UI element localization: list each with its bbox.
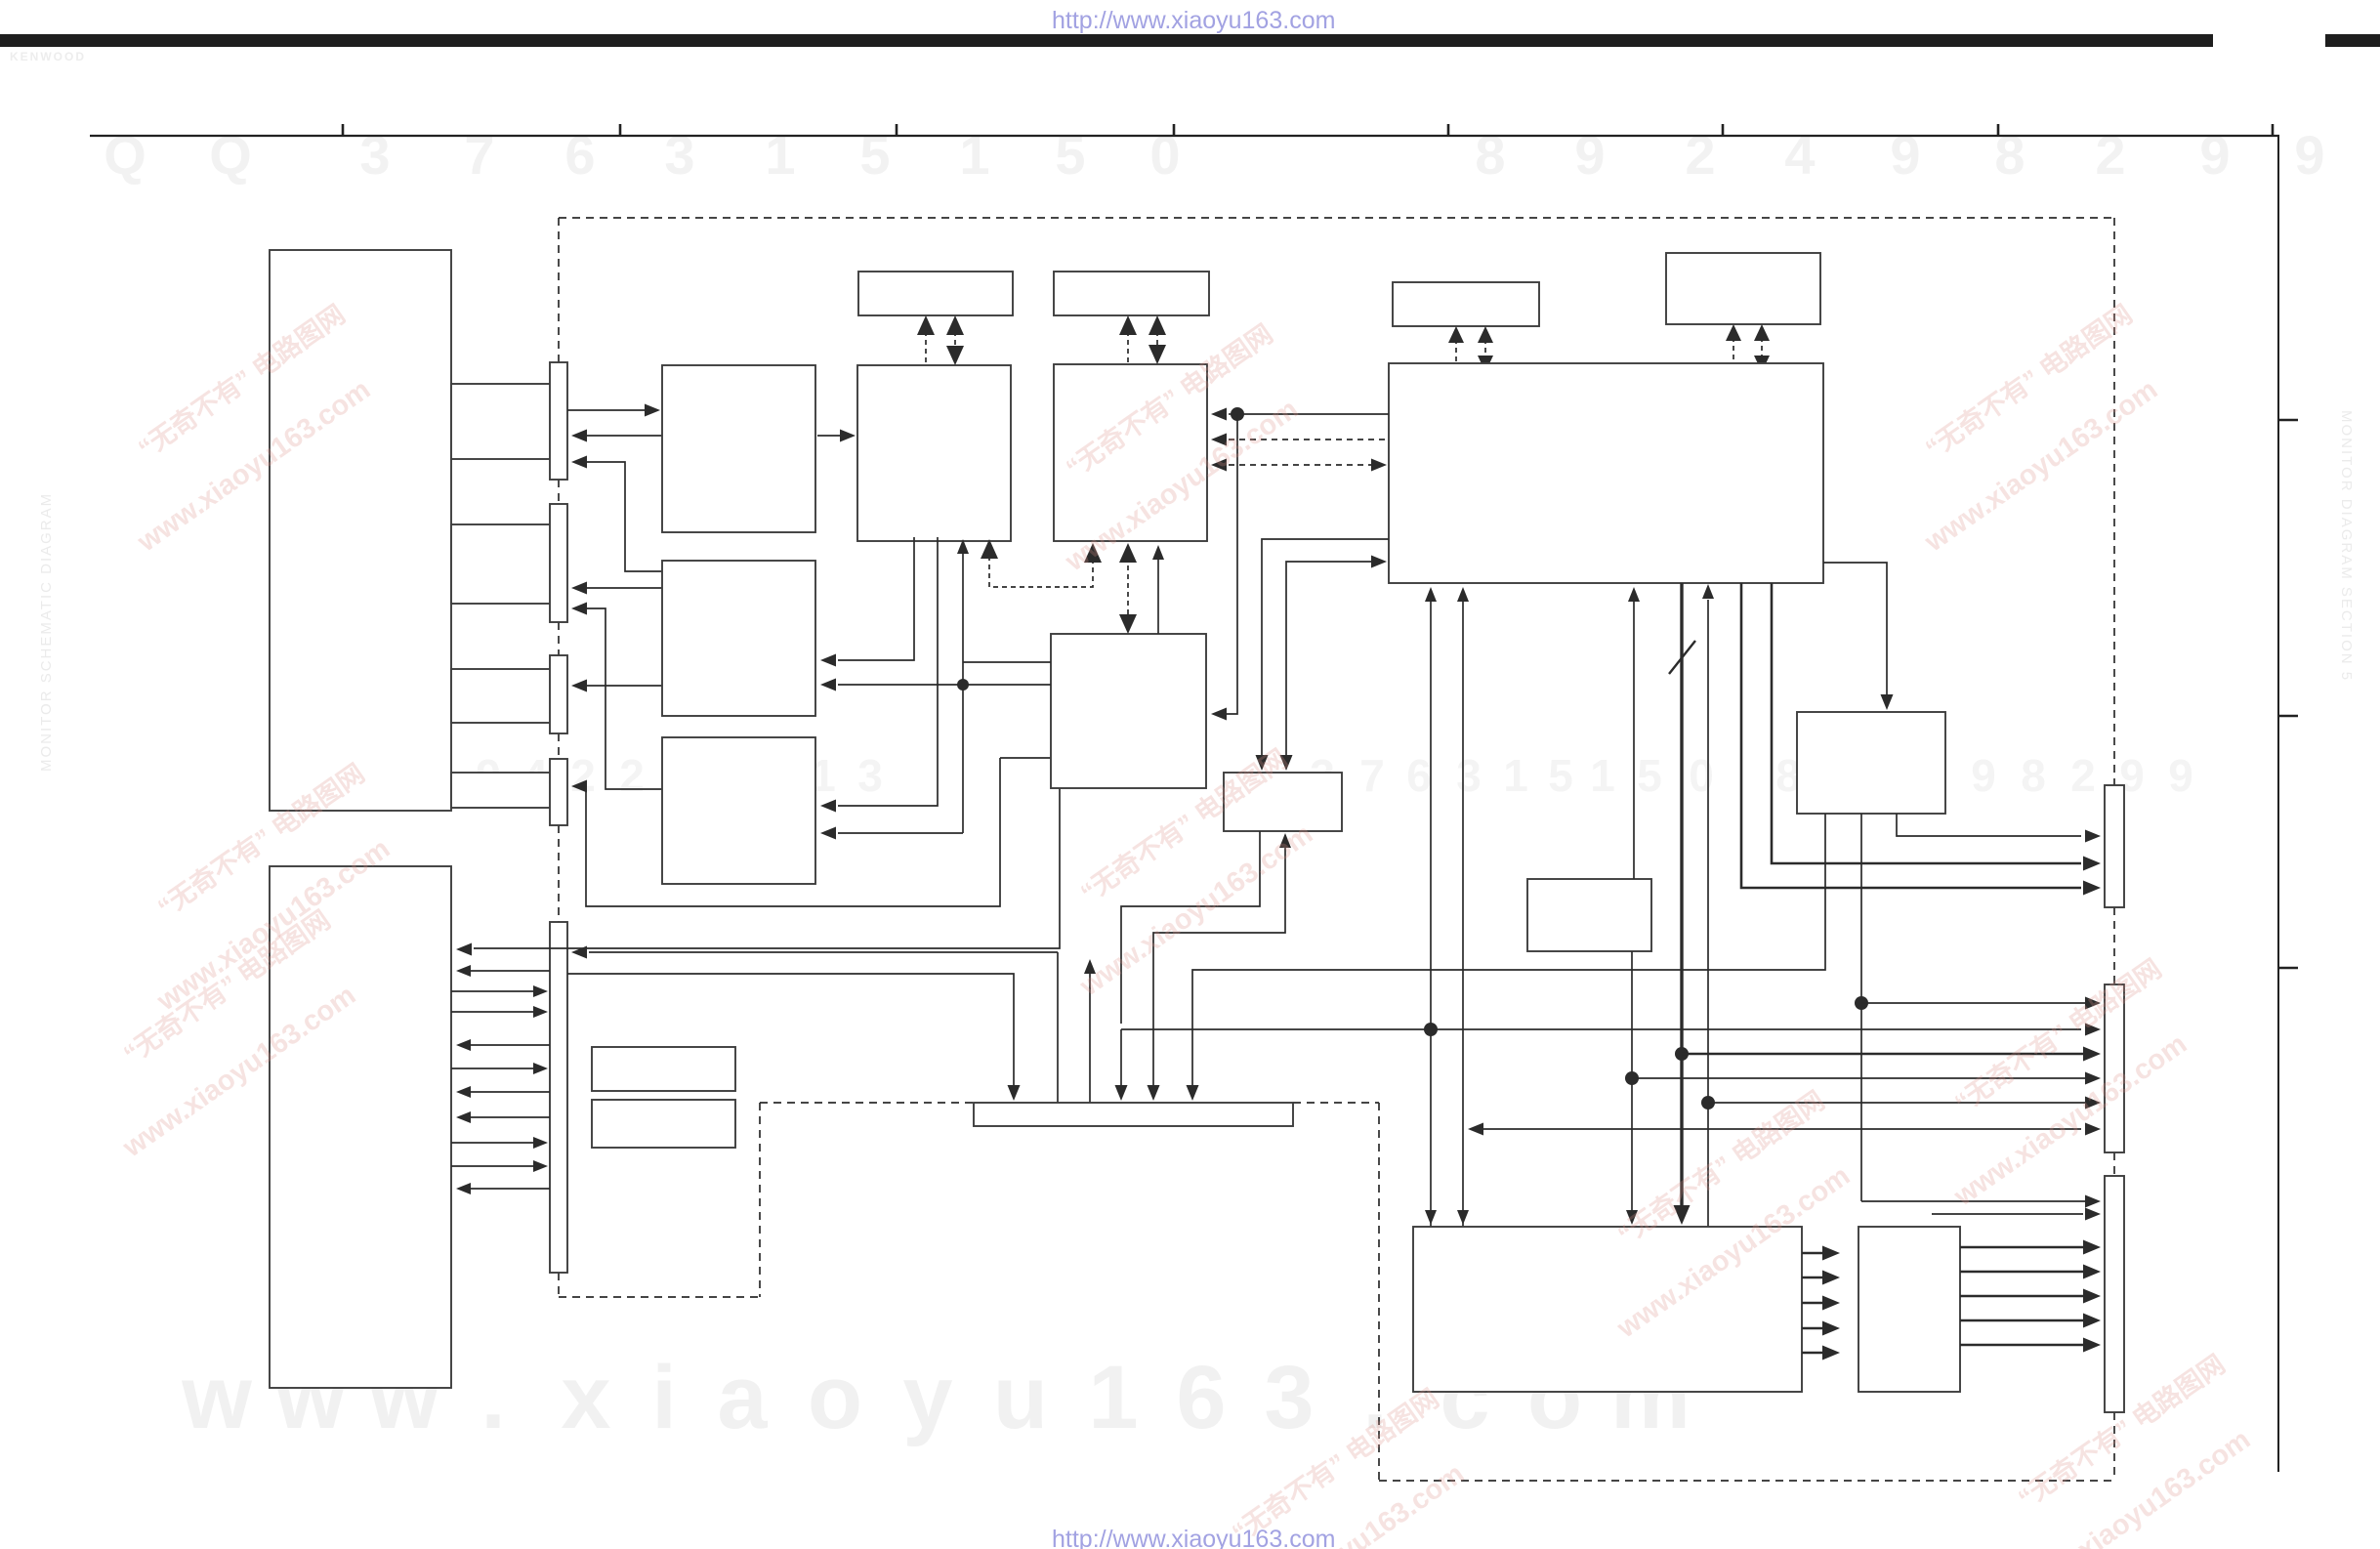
- arrowhead into B4 lower: [820, 679, 836, 691]
- ruler tick 5: [1447, 124, 1450, 136]
- wire CN-E to B2 c: [469, 1091, 550, 1093]
- bus RAM3-B7 dashed bidir line: [1484, 339, 1486, 359]
- pink watermark stamp 1: [88, 299, 395, 559]
- svg-text:7: 7: [1359, 750, 1385, 801]
- wire CN-E to B2 e: [469, 1188, 550, 1190]
- svg-text:1: 1: [1088, 1348, 1138, 1447]
- junction dot B8 line: [1231, 407, 1244, 421]
- svg-text:2: 2: [1685, 124, 1715, 186]
- dashed bottom left horiz: [559, 1296, 760, 1298]
- stub S2: [451, 524, 551, 604]
- svg-text:2: 2: [619, 750, 645, 801]
- wire B15 to CNF3 line1: [1960, 1246, 2085, 1249]
- wire B7-B8 dashed b: [1229, 464, 1371, 466]
- wire B7 to B8 solid left part: [1229, 413, 1237, 415]
- bus B8-B6 arrowhead into B8: [1084, 543, 1102, 563]
- arrowhead into bar from B11: [1187, 1085, 1199, 1101]
- ruler tick 8: [2272, 124, 2275, 136]
- wire B2 to CN-E c: [451, 1068, 535, 1069]
- right ruler tick 1: [2278, 419, 2298, 421]
- dashed right vertical b: [2113, 907, 2115, 984]
- arrowhead into B10 from bar net: [1279, 833, 1291, 848]
- wire B14 to B15 line2: [1802, 1277, 1824, 1279]
- dashed seg connD-connE: [558, 825, 560, 922]
- svg-text:y: y: [902, 1348, 952, 1447]
- svg-text:a: a: [717, 1348, 768, 1447]
- arrowhead into B4 upper: [820, 654, 836, 667]
- svg-text:1: 1: [1503, 750, 1528, 801]
- block B8 chroma proc: [1054, 364, 1207, 541]
- connector CN-D: [550, 759, 567, 825]
- wire B3 to B6: [817, 435, 842, 437]
- connector CN-C: [550, 655, 567, 733]
- svg-text:www.xiaoyu163.com: www.xiaoyu163.com: [1948, 1028, 2193, 1213]
- junction dot 1104: [1625, 1071, 1639, 1085]
- wire B14 to B15 line1: [1802, 1252, 1824, 1255]
- dashed seg connB-connC: [558, 622, 560, 655]
- pink watermark stamp 2: [1016, 318, 1322, 578]
- svg-text:.: .: [480, 1348, 506, 1447]
- arrowhead CNF2 f: [2085, 1123, 2101, 1136]
- wire bar riser 1149: [1120, 1029, 1122, 1086]
- bus B7-B14 line2 up: [1462, 600, 1464, 1227]
- arrowhead CNF1 c: [2085, 830, 2101, 843]
- bus EEPROM-B7 dashed bidir line: [1761, 337, 1763, 359]
- arrowhead left into riser: [1468, 1123, 1483, 1136]
- svg-text:MONITOR SCHEMATIC DIAGRAM: MONITOR SCHEMATIC DIAGRAM: [38, 492, 55, 772]
- bus B12-B14: [1631, 951, 1633, 1211]
- wire B15 to CNF3 line5: [1960, 1344, 2085, 1347]
- svg-text:2: 2: [570, 750, 596, 801]
- wire CN-D horiz: [584, 785, 586, 787]
- dashed seg connA-connB: [558, 480, 560, 504]
- bus RAM2-B8 dashed up line: [1127, 331, 1129, 364]
- arrowhead into B8 solid: [1211, 408, 1227, 421]
- stub S3: [451, 669, 551, 723]
- arrowhead into B14 thick: [1674, 1205, 1691, 1225]
- wire B7 to B10 route: [1262, 539, 1389, 757]
- block B6 video sw: [857, 365, 1011, 541]
- svg-text:KENWOOD: KENWOOD: [10, 50, 86, 63]
- arrowhead into B11: [1881, 694, 1894, 710]
- arrowhead CNF1 b: [2083, 857, 2101, 871]
- wire B4 to CN-A route: [586, 462, 662, 571]
- svg-text:u: u: [993, 1348, 1048, 1447]
- bus B8-B9 bidir up arrowhead: [1119, 543, 1137, 563]
- arrowhead into B6 net: [957, 539, 969, 554]
- dashed left riser: [759, 1103, 761, 1297]
- svg-text:9: 9: [1971, 750, 1996, 801]
- short stub CNF3: [1932, 1213, 2083, 1215]
- junction dot 1129: [1701, 1096, 1715, 1109]
- wire net to B5 y853: [838, 832, 963, 834]
- bus RAM3-B7 bidir up arrowhead: [1478, 326, 1493, 343]
- connector CN-F3: [2105, 1176, 2124, 1412]
- horizontal ruler line: [90, 135, 2279, 137]
- bus RAM1-B6 dashed bidir line: [954, 331, 956, 350]
- connector CN-F2: [2105, 984, 2124, 1152]
- block B7 main microcomputer: [1389, 363, 1823, 583]
- svg-text:2: 2: [2070, 750, 2096, 801]
- arrowhead into B8 dashed b: [1211, 459, 1227, 472]
- wire B10 to B7 route: [1286, 562, 1371, 757]
- arrowhead into bar: [1008, 1085, 1021, 1101]
- wire B11 to CNF1: [1897, 814, 2081, 836]
- bus B8-B6 arrowhead into B6: [981, 539, 998, 559]
- bus line y1027: [1861, 1002, 2087, 1004]
- pink watermark stamp 9: [1567, 1085, 1874, 1345]
- connector CN-E: [550, 922, 567, 1273]
- svg-text:http://www.xiaoyu163.com: http://www.xiaoyu163.com: [1052, 7, 1335, 34]
- wire B11 to CNF3: [1861, 1200, 2087, 1202]
- bus B7-B14 line5: [1707, 600, 1709, 1227]
- svg-text:3: 3: [1264, 1348, 1314, 1447]
- svg-text:i: i: [651, 1348, 677, 1447]
- dashed inner bottom: [1379, 1480, 2114, 1482]
- arrowhead into CN-A: [571, 456, 587, 469]
- wire B15 to CNF3 line4: [1960, 1319, 2085, 1322]
- bus B8-B9 bidir line: [1127, 557, 1129, 618]
- bus B7-B12 up: [1633, 600, 1635, 879]
- block EEPROM top: [1666, 253, 1820, 324]
- dashed inner left vertical: [1378, 1103, 1380, 1481]
- arrowhead into B5 upper: [820, 800, 836, 813]
- arrowhead into bar mid: [1148, 1085, 1160, 1101]
- block B10 buffer: [1224, 773, 1342, 831]
- wire CN-E to B2 d: [469, 1116, 550, 1118]
- bus RAM1-B6 bidir down arrowhead: [946, 346, 964, 365]
- svg-text:9: 9: [2294, 124, 2324, 186]
- bus B7 to CNF1 b: [1772, 583, 2081, 863]
- arrowhead into B10 a: [1256, 755, 1269, 771]
- wire B14 to B15 line3: [1802, 1302, 1824, 1305]
- svg-text:6: 6: [1176, 1348, 1226, 1447]
- top black bar left: [0, 34, 2213, 47]
- bus RAM1-B6 up arrowhead: [917, 315, 935, 335]
- arrowhead into B2: [456, 943, 472, 956]
- arrowhead into B14 line3: [1626, 1210, 1638, 1225]
- bus RAM1-B6 dashed up line: [925, 331, 927, 365]
- bus B8-B6 dashed route: [989, 553, 1093, 587]
- svg-text:5: 5: [1637, 750, 1662, 801]
- svg-text:2: 2: [2095, 124, 2125, 186]
- block B3 IF amp: [662, 365, 815, 532]
- block B4 decoder: [662, 561, 815, 716]
- wire B7 to B11 route: [1823, 563, 1887, 695]
- bus RAM2-B8 dashed bidir line: [1156, 331, 1158, 349]
- dashed outline top: [559, 217, 2114, 219]
- arrowhead into bar from B10 wire: [1115, 1085, 1128, 1101]
- ruler tick 2: [619, 124, 622, 136]
- svg-text:www.xiaoyu163.com: www.xiaoyu163.com: [1919, 374, 2164, 559]
- wire B4 to CN-C: [585, 685, 662, 687]
- pink watermark stamp 4a: [107, 758, 414, 1018]
- pink watermark stamp 5: [1030, 743, 1337, 1003]
- svg-text:o: o: [808, 1348, 862, 1447]
- bus line y1157: [1481, 1128, 2081, 1130]
- svg-text:4: 4: [1784, 124, 1815, 186]
- wire B14 to B15 line4: [1802, 1327, 1824, 1330]
- svg-text:0: 0: [1689, 750, 1714, 801]
- wire CN-D route: [586, 758, 1000, 906]
- bus B7-B14 thick: [1680, 583, 1683, 1209]
- svg-text:9: 9: [1574, 124, 1605, 186]
- dashed right vertical d: [2113, 1412, 2115, 1481]
- pink watermark stamp 8: [1182, 1383, 1488, 1549]
- bus line y1079 thick: [1682, 1053, 2085, 1056]
- junction dot 1079: [1675, 1047, 1689, 1061]
- wire B9 to B8: [1157, 558, 1159, 634]
- svg-text:1: 1: [959, 124, 989, 186]
- dashed outline left upper: [558, 218, 560, 362]
- arrowhead into B7 left: [1371, 556, 1387, 568]
- bus width slash: [1669, 641, 1695, 674]
- wire CN-E to B2 b: [469, 1044, 550, 1046]
- bus EEPROM-B7 up arrowhead: [1726, 324, 1741, 341]
- stub S4: [451, 773, 551, 808]
- dashed seg below connE: [558, 1273, 560, 1297]
- wire B9 to net y678: [963, 661, 1051, 663]
- dashed right vertical c: [2113, 1152, 2115, 1176]
- wire B7-B8 dashed a: [1229, 439, 1389, 440]
- wire B2 to CN-E b: [451, 1011, 535, 1013]
- bus B8-B9 bidir down arrowhead: [1119, 614, 1137, 634]
- wire B6 to B5 route: [838, 537, 938, 806]
- svg-text:8: 8: [2021, 750, 2046, 801]
- svg-text:9: 9: [1890, 124, 1920, 186]
- top black bar right: [2325, 34, 2380, 47]
- wire B11 to CNF3 vertical: [1860, 814, 1862, 1201]
- bus RAM1-B6 bidir up arrowhead: [946, 315, 964, 335]
- bus RAM3-B7 up arrowhead: [1448, 326, 1464, 343]
- wire CN-E to B2 a: [469, 970, 550, 972]
- block B2 key/display unit: [270, 866, 451, 1388]
- wire B2 to CN-E e: [451, 1165, 535, 1167]
- svg-text:5: 5: [1548, 750, 1573, 801]
- wire B11 to bar route: [1192, 814, 1825, 1086]
- dashed right vertical a: [2113, 218, 2115, 785]
- pink watermark stamp 6: [1904, 953, 2211, 1213]
- ruler tick 1: [342, 124, 345, 136]
- arrowhead CNF2 bus1054: [2085, 1024, 2101, 1036]
- bus RAM2-B8 bidir up arrowhead: [1148, 315, 1166, 335]
- svg-text:6: 6: [564, 124, 595, 186]
- svg-text:9: 9: [2168, 750, 2193, 801]
- arrow up from bar: [1089, 972, 1091, 1103]
- arrowhead CNF1 a: [2083, 881, 2101, 896]
- block RAM2 top: [1054, 272, 1209, 315]
- bus B7-B14 line1 up: [1430, 600, 1432, 1227]
- pink watermark stamp 3: [1875, 299, 2182, 559]
- wire B2 to CN-E a: [451, 990, 535, 992]
- wire B10 down to bus: [1121, 831, 1260, 1024]
- connector CN-A: [550, 362, 567, 480]
- wire net to B4 y701: [838, 684, 1051, 686]
- wire B7 to B8 solid: [1237, 413, 1389, 415]
- bus B7 to CNF1 a: [1741, 583, 2081, 888]
- arrowhead into CN-D: [571, 780, 587, 793]
- svg-text:3: 3: [857, 750, 883, 801]
- svg-text:Q: Q: [209, 124, 252, 186]
- wire riser to CN-E line: [1057, 952, 1059, 1103]
- svg-text:5: 5: [1055, 124, 1085, 186]
- svg-text:3: 3: [359, 124, 390, 186]
- bus line y1129: [1708, 1102, 2087, 1104]
- block B14 audio power amp: [1413, 1227, 1802, 1392]
- bus line y1054: [1121, 1028, 2081, 1030]
- bus RAM3-B7 bidir down arrowhead: [1478, 356, 1493, 372]
- wire B4 to CN-B: [585, 587, 662, 589]
- junction dot 1027: [1855, 996, 1868, 1010]
- wire B9 to bend: [1000, 757, 1051, 759]
- svg-text:Q: Q: [104, 124, 146, 186]
- wire B14 to B15 line5: [1802, 1352, 1824, 1355]
- ruler tick 7: [1997, 124, 2000, 136]
- wire B15 to CNF3 line2: [1960, 1271, 2085, 1274]
- bus RAM2-B8 bidir down arrowhead: [1148, 345, 1166, 364]
- svg-text:3: 3: [1456, 750, 1482, 801]
- wire CN-A to B3: [567, 409, 647, 411]
- bus RAM2-B8 up arrowhead: [1119, 315, 1137, 335]
- block SB2 regulator2: [592, 1100, 735, 1148]
- connector CN-F1: [2105, 785, 2124, 907]
- svg-text:http://www.xiaoyu163.com: http://www.xiaoyu163.com: [1052, 1526, 1335, 1549]
- arrowhead into CN-E: [571, 946, 587, 959]
- dashed seg connC-connD: [558, 733, 560, 759]
- bus EEPROM-B7 dashed up line: [1733, 337, 1734, 363]
- svg-text:MONITOR DIAGRAM SECTION 5: MONITOR DIAGRAM SECTION 5: [2338, 410, 2355, 682]
- arrowhead into B7 dashed b: [1371, 459, 1387, 472]
- block RAM3 top: [1393, 282, 1539, 326]
- arrowhead into B10 b: [1280, 755, 1293, 771]
- right ruler tick 2: [2278, 715, 2298, 717]
- arrowhead into B8 dashed a: [1211, 434, 1227, 446]
- arrowhead CNF3 b: [2085, 1208, 2101, 1221]
- pink watermark stamp 4b: [73, 904, 380, 1164]
- wire B10 to bar route: [1153, 835, 1285, 1086]
- bus EEPROM-B7 bidir down arrowhead: [1754, 356, 1770, 372]
- svg-text:w: w: [181, 1348, 252, 1447]
- arrowhead into B5 lower: [820, 827, 836, 840]
- svg-text:3: 3: [664, 124, 694, 186]
- block B12 X-ray protect: [1527, 879, 1651, 951]
- bus bar B13: [974, 1103, 1293, 1126]
- svg-text:7: 7: [464, 124, 494, 186]
- arrowhead into B14 line1: [1425, 1210, 1437, 1225]
- ruler tick 4: [1173, 124, 1176, 136]
- pink watermark stamp 7: [1968, 1349, 2275, 1549]
- stub S1: [451, 384, 551, 459]
- bus RAM3-B7 dashed up line: [1455, 339, 1457, 363]
- right ruler tick 3: [2278, 967, 2298, 969]
- block B15 output filter: [1858, 1227, 1960, 1392]
- junction dot 1054: [1424, 1023, 1438, 1036]
- dashed to bar: [760, 1102, 974, 1104]
- arrowhead into B9 right: [1211, 708, 1227, 721]
- svg-text:1: 1: [1590, 750, 1615, 801]
- block B1 tuner/front-end: [270, 250, 451, 811]
- bus line y1104: [1632, 1077, 2087, 1079]
- right border ruler: [2277, 136, 2279, 1472]
- wire B9 to B2 long: [474, 788, 1060, 948]
- svg-text:9: 9: [2199, 124, 2230, 186]
- ruler tick 3: [896, 124, 898, 136]
- wire to CN-E long: [589, 951, 1058, 953]
- wire B6 to B4 route: [838, 537, 914, 660]
- connector CN-B: [550, 504, 567, 622]
- svg-text:0: 0: [1149, 124, 1180, 186]
- arrowhead into B7 line5: [1702, 584, 1714, 599]
- wire dot to B9: [1226, 414, 1237, 714]
- bus EEPROM-B7 bidir up arrowhead: [1754, 324, 1770, 341]
- block B11 reset IC: [1797, 712, 1945, 814]
- block B5 sync proc: [662, 737, 815, 884]
- svg-text:5: 5: [859, 124, 890, 186]
- wire B15 to CNF3 line3: [1960, 1295, 2085, 1298]
- wire CN-E to bar: [567, 974, 1014, 1086]
- svg-text:www.xiaoyu163.com: www.xiaoyu163.com: [1074, 818, 1319, 1003]
- ruler tick 6: [1722, 124, 1725, 136]
- junction dot net: [957, 679, 969, 691]
- dashed bar to corner: [1293, 1102, 1379, 1104]
- svg-text:x: x: [561, 1348, 610, 1447]
- arrowhead into CN-B: [571, 603, 587, 615]
- wire net vertical x986: [962, 541, 964, 833]
- block B9 deflection proc: [1051, 634, 1206, 788]
- svg-text:8: 8: [1475, 124, 1505, 186]
- wire B2 to CN-E d: [451, 1142, 535, 1144]
- block RAM1 top: [858, 272, 1013, 315]
- arrowhead into B14 line2: [1457, 1210, 1469, 1225]
- svg-text:1: 1: [765, 124, 795, 186]
- wire B5 to CN-B route: [586, 608, 662, 789]
- svg-text:6: 6: [1406, 750, 1432, 801]
- wire B3 to CN-A: [585, 435, 662, 437]
- block SB1 regulator: [592, 1047, 735, 1091]
